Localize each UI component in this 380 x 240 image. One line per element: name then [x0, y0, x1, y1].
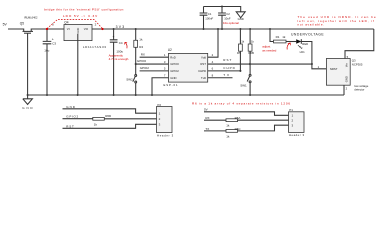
svg-text:10u: 10u: [44, 48, 49, 52]
ESP-01 socket U2 box: [169, 53, 208, 82]
svg-text:RST: RST: [66, 124, 74, 128]
svg-text:U2: U2: [168, 48, 172, 52]
svg-text:GPIO2: GPIO2: [66, 115, 78, 119]
svg-text:1k: 1k: [139, 37, 143, 41]
resistor R6B body: [248, 44, 252, 51]
svg-text:1: 1: [164, 53, 166, 57]
svg-text:RED: RED: [302, 42, 308, 46]
wire 5V input: [8, 29, 24, 31]
net stub GPIO2: [140, 70, 169, 72]
wire R6D to P2: [104, 118, 156, 120]
svg-text:100nF: 100nF: [205, 17, 213, 21]
red annotation arrow at LED: [287, 43, 290, 49]
wire LDO output 3V3 rail: [92, 28, 374, 30]
svg-text:TX: TX: [205, 127, 209, 131]
svg-text:10u optional: 10u optional: [223, 21, 239, 25]
svg-text:LD1117AS33: LD1117AS33: [83, 45, 106, 49]
svg-text:R5: R5: [237, 51, 241, 55]
capacitor C2 leads: [221, 7, 223, 30]
svg-text:Vin: Vin: [345, 63, 349, 67]
svg-text:RxD: RxD: [170, 55, 175, 59]
svg-text:5V: 5V: [204, 108, 208, 112]
wire RX to R6A: [204, 119, 226, 121]
svg-text:2: 2: [346, 86, 348, 90]
NCP305 U3 box: [326, 59, 350, 86]
resistor R6C body: [226, 130, 238, 133]
svg-text:GND: GND: [170, 76, 176, 80]
svg-text:C1: C1: [208, 12, 212, 16]
svg-text:7: 7: [164, 73, 166, 77]
connector P1 box: [289, 112, 305, 133]
wire R6C to P1: [238, 125, 289, 131]
svg-text:8: 8: [212, 73, 214, 77]
svg-text:P1: P1: [289, 108, 293, 112]
svg-text:4: 4: [212, 60, 214, 64]
svg-text:RST: RST: [200, 62, 206, 66]
svg-text:VI: VI: [67, 27, 70, 31]
svg-text:2: 2: [212, 53, 214, 57]
red annotation arrow at C4: [125, 42, 127, 48]
wire Q5 gate to ground: [27, 33, 29, 95]
GND rail: [28, 94, 344, 96]
svg-text:3V3: 3V3: [116, 25, 125, 29]
svg-text:RX: RX: [205, 116, 209, 120]
wire CHPD net: [208, 70, 241, 72]
capacitor C1 plates: [200, 13, 208, 15]
svg-text:NCP305: NCP305: [352, 62, 363, 66]
svg-text:SW1: SW1: [240, 84, 247, 88]
svg-text:Header 3: Header 3: [157, 134, 174, 138]
wire GND to P2: [63, 109, 157, 113]
capacitor C3 plates: [43, 41, 52, 43]
svg-text:R1: R1: [276, 35, 280, 39]
svg-text:IRLML6402: IRLML6402: [24, 16, 38, 20]
svg-text:CHPD: CHPD: [223, 66, 235, 70]
svg-text:VO: VO: [84, 27, 89, 31]
svg-text:detector: detector: [354, 88, 364, 92]
svg-text:SW2: SW2: [126, 77, 133, 81]
ground symbol top: [236, 12, 245, 18]
wire RST net: [208, 63, 312, 65]
red bridge end dots: [46, 28, 104, 30]
resistor R1 body: [274, 40, 287, 43]
resistor R6A body: [226, 119, 238, 122]
svg-text:GND: GND: [76, 28, 80, 34]
resistor R2 leads: [135, 29, 137, 64]
wire R1 branch: [270, 29, 274, 42]
ground symbol main: [23, 95, 33, 104]
svg-text:R6D: R6D: [105, 114, 112, 118]
wire RST to P2: [63, 124, 157, 128]
capacitor C4 leads: [113, 29, 115, 95]
svg-text:TxD: TxD: [201, 76, 206, 80]
resistor R5 body: [239, 44, 243, 51]
wire 3V3 to Vin: [345, 29, 374, 59]
svg-text:+: +: [112, 35, 114, 39]
capacitor C2 plates: [218, 13, 226, 15]
wire decoupling gnd top: [204, 7, 241, 12]
svg-text:as needed: as needed: [262, 48, 276, 52]
svg-text:+: +: [52, 37, 54, 41]
svg-text:6: 6: [212, 67, 214, 71]
transistor Q5 gate bar: [24, 32, 31, 34]
LDO regulator Q4 box: [64, 25, 92, 41]
wire GPIO0: [136, 63, 169, 65]
push button SW2: [133, 64, 137, 95]
wire LED to NRST vertical: [301, 42, 326, 69]
resistor R6D body: [93, 117, 105, 120]
svg-text:R2: R2: [139, 45, 143, 49]
svg-text:Q4: Q4: [64, 20, 68, 24]
svg-text:R6B: R6B: [248, 51, 254, 55]
red dashed bridge over LDO: [47, 20, 103, 29]
connector P2 box: [157, 107, 173, 133]
svg-text:1k: 1k: [94, 123, 98, 127]
svg-text:Header 3: Header 3: [289, 133, 304, 137]
svg-text:1k: 1k: [282, 35, 286, 39]
wire Q5 drain to LDO: [31, 29, 64, 31]
svg-text:C4: C4: [119, 41, 123, 45]
svg-text:Vdd: Vdd: [201, 55, 206, 59]
LED arrows: [298, 45, 302, 48]
svg-text:UNDERVOLTAGE: UNDERVOLTAGE: [291, 32, 324, 36]
LDO ground pin wire: [77, 34, 79, 95]
wire GPIO2 to R6D: [63, 118, 93, 120]
wire NCP305 GND pin: [343, 85, 345, 95]
svg-text:RX: RX: [141, 52, 145, 56]
wire U2 GND pin to rail: [152, 78, 169, 95]
capacitor C3 bottom lead: [46, 44, 48, 95]
wire 5V to P1: [204, 112, 289, 116]
svg-text:1k: 1k: [226, 134, 230, 138]
svg-text:NRST: NRST: [330, 67, 338, 71]
svg-text:1k: 1k: [241, 40, 245, 44]
wire R1 to LED: [286, 41, 296, 43]
svg-text:GPIO2: GPIO2: [170, 69, 179, 73]
svg-text:3: 3: [52, 23, 54, 27]
svg-text:4.7u is enough.: 4.7u is enough.: [109, 57, 130, 61]
svg-text:R6C: R6C: [235, 127, 242, 131]
svg-text:2: 2: [95, 23, 97, 27]
svg-text:CHPD: CHPD: [198, 69, 206, 73]
net stub RX: [140, 56, 169, 58]
svg-text:5: 5: [164, 67, 166, 71]
svg-text:GPIO2: GPIO2: [140, 66, 150, 70]
svg-text:R6 is a 1k array of 4 separate: R6 is a 1k array of 4 separate resistors…: [192, 102, 290, 106]
svg-text:1k: 1k: [251, 40, 255, 44]
push button SW1: [247, 64, 251, 95]
capacitor C4 plates: [110, 40, 118, 42]
svg-text:RST: RST: [223, 58, 231, 62]
svg-text:Q5: Q5: [20, 22, 24, 26]
LED LD1: [296, 39, 301, 43]
wire TX to R6C: [204, 130, 226, 132]
svg-text:R6A: R6A: [235, 116, 241, 120]
svg-text:1k: 1k: [226, 124, 230, 128]
svg-text:bridge this for the 'external: bridge this for the 'external PSU' confi…: [44, 8, 123, 12]
net stub TX: [208, 77, 233, 79]
resistor R2 body: [134, 40, 138, 47]
svg-text:GPIO0: GPIO0: [170, 62, 179, 66]
svg-text:LDO 5V -> 3.3V: LDO 5V -> 3.3V: [63, 14, 98, 18]
resistor R6B leads: [249, 29, 251, 64]
transistor Q5 channel: [23, 30, 34, 32]
svg-text:LD1: LD1: [300, 50, 306, 54]
svg-text:GND: GND: [238, 17, 244, 21]
wire U2 Vdd pin to rail: [208, 29, 218, 57]
svg-text:C2: C2: [226, 12, 230, 16]
svg-text:10uF: 10uF: [224, 17, 231, 21]
svg-text:3: 3: [164, 60, 166, 64]
svg-text:C3: C3: [52, 41, 56, 45]
svg-text:TX: TX: [223, 73, 229, 77]
svg-text:P2: P2: [157, 103, 161, 107]
resistor R5 leads: [239, 29, 241, 71]
svg-text:GND: GND: [22, 106, 33, 110]
svg-text:GND: GND: [66, 105, 75, 109]
wire R6A to P1: [238, 119, 289, 121]
svg-text:5V: 5V: [3, 23, 8, 27]
svg-text:ESP-01: ESP-01: [164, 83, 178, 87]
svg-text:GPIO0: GPIO0: [137, 59, 147, 63]
svg-text:not available.: not available.: [298, 23, 325, 27]
svg-text:GND: GND: [345, 76, 349, 82]
capacitor C1 leads: [203, 7, 205, 30]
capacitor C3 top lead: [46, 29, 48, 41]
